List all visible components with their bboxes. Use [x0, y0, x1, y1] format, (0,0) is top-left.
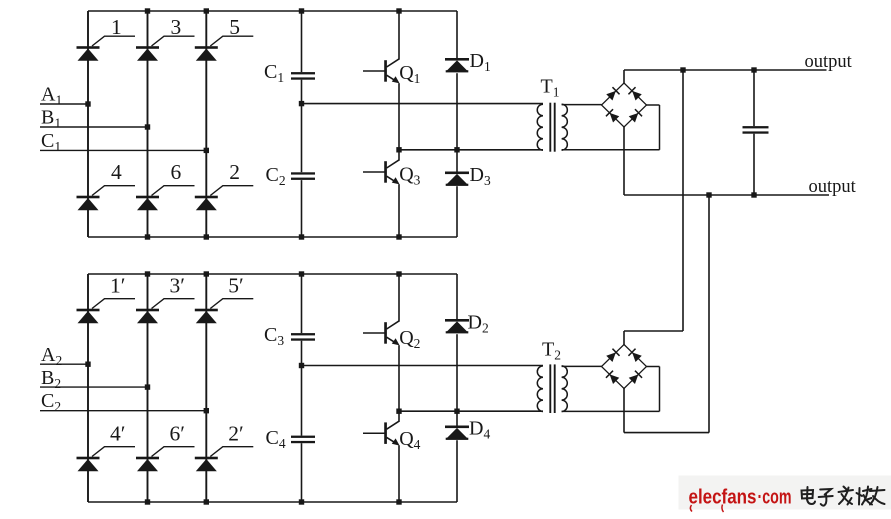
svg-text:output: output — [809, 177, 857, 197]
svg-text:5: 5 — [229, 15, 240, 39]
svg-text:2′: 2′ — [228, 422, 243, 446]
svg-text:4: 4 — [111, 160, 122, 184]
svg-text:3: 3 — [171, 15, 182, 39]
svg-text:·com: ·com — [758, 486, 792, 509]
svg-text:6: 6 — [171, 160, 182, 184]
svg-text:6′: 6′ — [170, 422, 185, 446]
svg-text:1: 1 — [111, 15, 122, 39]
svg-text:4′: 4′ — [110, 422, 125, 446]
svg-text:1′: 1′ — [110, 274, 125, 298]
svg-text:3′: 3′ — [170, 274, 185, 298]
svg-text:5′: 5′ — [228, 274, 243, 298]
svg-text:output: output — [805, 52, 853, 72]
svg-text:2: 2 — [229, 160, 240, 184]
